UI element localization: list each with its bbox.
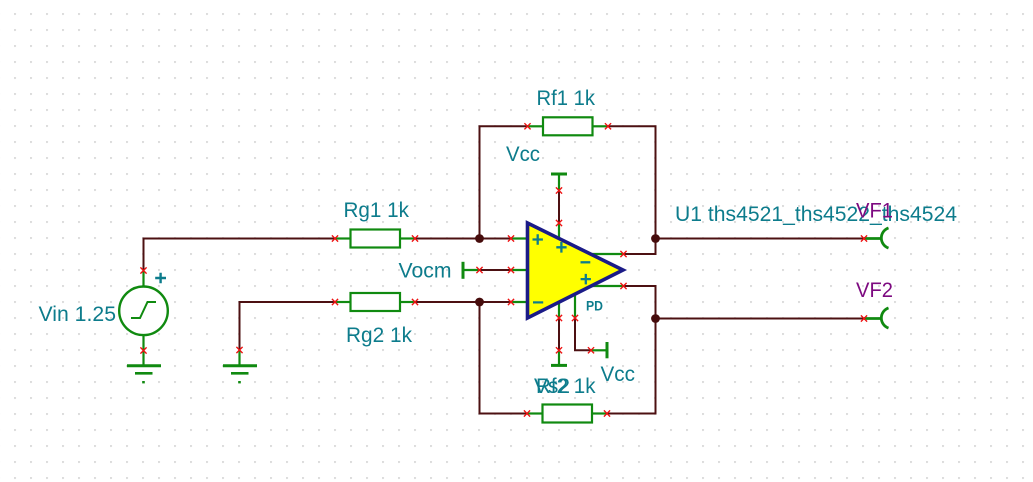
wire U1 PD pin to Vcc2 terminal bbox=[575, 318, 591, 350]
Vs2 supply terminal (bottom) bbox=[551, 350, 567, 365]
resistor Rg1 bbox=[335, 230, 415, 248]
svg-text:U1 ths4521_ths4522_ths4524: U1 ths4521_ths4522_ths4524 bbox=[675, 203, 957, 226]
wire Rf2 right up to node D bbox=[607, 319, 656, 414]
op-amp out- mark bbox=[581, 261, 591, 263]
wire node B to VF1 terminal bbox=[656, 238, 865, 240]
junction node B bbox=[651, 234, 660, 243]
svg-text:Rf1 1k: Rf1 1k bbox=[537, 87, 596, 110]
wire U1 out+ to node D bbox=[624, 286, 656, 319]
svg-text:PD: PD bbox=[586, 299, 603, 314]
junction node A bbox=[475, 234, 484, 243]
voltage source Vin bbox=[119, 271, 168, 351]
wire Rf1 right down to node B bbox=[608, 126, 656, 238]
wire node D to VF2 terminal bbox=[656, 318, 865, 320]
resistor Rf2 bbox=[527, 405, 607, 423]
resistor Rf1 bbox=[528, 117, 609, 135]
ground 2 (at Rg2 input) bbox=[223, 350, 257, 382]
op-amp U1 body bbox=[528, 223, 624, 318]
wire Vocm terminal to U1 vocm pin bbox=[480, 269, 512, 271]
Vcc supply terminal (top) bbox=[551, 174, 567, 191]
wire node C down to Rf2 left bbox=[480, 302, 528, 414]
svg-text:Rg2 1k: Rg2 1k bbox=[346, 324, 412, 347]
op-amp -in mark bbox=[533, 301, 543, 303]
Vocm input terminal bbox=[463, 262, 480, 279]
wire Vcc terminal to U1 top pin bbox=[558, 191, 560, 224]
VF2 output terminal bbox=[864, 308, 889, 328]
wire Rg1 right to U1 +in bbox=[415, 238, 511, 240]
svg-text:VF2: VF2 bbox=[856, 279, 893, 302]
wire ground2 up to Rg2 left bbox=[240, 302, 336, 350]
svg-text:VF1: VF1 bbox=[856, 199, 893, 222]
svg-text:Vocm: Vocm bbox=[399, 260, 452, 283]
pin connection x marks bbox=[140, 123, 867, 416]
op-amp out+ mark bbox=[581, 274, 591, 285]
wire Rg2 right to U1 -in bbox=[415, 301, 511, 303]
op-amp +in mark bbox=[533, 234, 543, 245]
op-amp U1 pins bbox=[511, 223, 624, 318]
resistor Rg2 bbox=[335, 293, 415, 311]
wire node B down to U1 out- bbox=[624, 239, 656, 255]
junction node D bbox=[651, 314, 660, 323]
VF1 output terminal bbox=[864, 228, 889, 248]
Vcc2 terminal (right of PD) bbox=[591, 342, 607, 358]
op-amp supply + mark bbox=[556, 242, 566, 253]
wire node A up to Rf1 left bbox=[480, 126, 528, 238]
svg-text:Rf2 1k: Rf2 1k bbox=[536, 375, 596, 398]
wire U1 Vee pin down to Vs2 terminal bbox=[558, 318, 560, 350]
svg-text:Vin 1.25: Vin 1.25 bbox=[39, 303, 117, 326]
svg-text:Vcc: Vcc bbox=[506, 143, 540, 166]
wire Vin top to Rg1 left bbox=[144, 239, 336, 271]
svg-text:Vcc: Vcc bbox=[601, 363, 636, 386]
junction node C bbox=[475, 298, 484, 307]
ground under Vin bbox=[127, 351, 161, 383]
svg-text:Rg1 1k: Rg1 1k bbox=[344, 199, 410, 222]
